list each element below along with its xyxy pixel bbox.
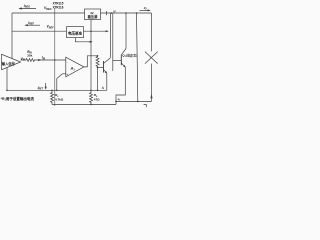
resistor R1b internal [90, 90, 93, 104]
wire Iret rail [7, 89, 107, 91]
wire noninverting input [62, 73, 65, 75]
svg-text:IIN: IIN [42, 56, 46, 61]
wire V+ vertical B [112, 13, 114, 71]
resistor R1a external [51, 90, 54, 104]
svg-text:IE: IE [102, 86, 105, 91]
node Io arrowhead [148, 9, 151, 11]
node junction plus input rail [56, 90, 58, 92]
transistor Tint base bar [103, 61, 105, 73]
node arrow Iin on wire [38, 59, 41, 61]
node Tint emitter arrowhead [105, 71, 108, 74]
node junction col91/vref [90, 30, 92, 32]
node junction col91/bent [90, 41, 92, 43]
wire Iret arrow down [45, 83, 47, 89]
node hook mark [144, 105, 147, 108]
wire Q1 collector up [125, 13, 127, 49]
node junction R1a top [51, 90, 53, 92]
box voltage reference 电压基准 [67, 27, 84, 38]
wire R2 bottom to rail [97, 67, 99, 90]
wire base Tint [98, 66, 104, 68]
chip boundary line [54, 8, 56, 106]
node V3 top [136, 12, 138, 14]
svg-text:+: + [66, 72, 68, 76]
svg-text:IREF: IREF [28, 21, 34, 26]
node arrowhead bent wire [90, 41, 93, 43]
node junction R2 top [97, 55, 99, 57]
box regulator 稳压源 [85, 9, 101, 20]
wire bottom step [115, 101, 117, 104]
wire col91 regulator down [90, 20, 92, 91]
svg-text:*R1用于设置输出电流: *R1用于设置输出电流 [1, 96, 35, 102]
node junction R2 rail [97, 90, 99, 92]
node junction R1b bottom [90, 104, 92, 106]
wire top rail V+ [12, 12, 152, 14]
node junction base [97, 67, 99, 69]
wire Q1 emitter down-left-down [116, 67, 125, 101]
svg-text:IREG: IREG [24, 4, 30, 9]
wire Io arrow [140, 9, 150, 11]
node junction input/boundary [54, 59, 56, 61]
wire Vref rail left [12, 30, 67, 32]
node loop current arrowhead up [150, 94, 152, 98]
svg-text:IO: IO [118, 97, 121, 102]
wire left vertical [11, 13, 13, 60]
transistor Q1 base bar [120, 55, 122, 65]
node junction collector rail [125, 12, 127, 14]
wire loop right top [151, 13, 153, 51]
wire Vref rail right with arrowhead [84, 30, 108, 32]
node junction V+ rail [111, 12, 113, 14]
wire bottom rail loop [116, 100, 152, 102]
amplifier input source triangle [2, 54, 21, 69]
wire V3 vertical [137, 13, 138, 101]
resistor R2 internal [96, 56, 99, 68]
svg-text:VIN: VIN [21, 57, 26, 62]
transistor Q1 collector [121, 49, 126, 55]
svg-text:4.7kΩ: 4.7kΩ [55, 98, 64, 102]
node junction emitter bottom [115, 101, 117, 103]
svg-text:稳压源: 稳压源 [88, 14, 99, 19]
wire noninverting down to Iret rail [56, 79, 58, 91]
node arrowhead vref [106, 30, 109, 32]
wire after RIN into chip [36, 59, 66, 61]
node V3 bottom [137, 101, 139, 103]
node Iret arrowhead [45, 87, 47, 90]
wire input gnd drop [6, 68, 8, 91]
op-amp A1 [66, 57, 84, 77]
wire tick on rail [106, 11, 108, 15]
transistor Q1 emitter [121, 63, 125, 67]
svg-text:Q1(见正文): Q1(见正文) [122, 53, 137, 59]
node junction col91 rail [90, 90, 92, 92]
node Iref arrowhead [24, 24, 27, 26]
svg-text:47Ω: 47Ω [94, 98, 100, 102]
svg-text:XTR116: XTR116 [53, 6, 64, 10]
svg-text:电压基准: 电压基准 [68, 30, 82, 35]
wire V+ vertical A [109, 13, 111, 58]
wire noninverting diagonal [57, 74, 63, 79]
svg-text:-: - [67, 60, 68, 64]
wire A1 output jog [84, 56, 98, 67]
node X crossing (supply) [145, 52, 158, 64]
wire Tint emitter down [106, 73, 108, 90]
transistor Tint emitter [104, 70, 107, 74]
svg-text:25k: 25k [27, 54, 32, 58]
svg-text:VREG: VREG [44, 6, 52, 11]
node corner dot [6, 90, 8, 92]
wire bottom rail chip [52, 103, 116, 105]
node Q1 emitter arrowhead [123, 65, 126, 68]
node X crossing 2 [145, 52, 158, 64]
wire Q1 base [113, 59, 122, 61]
svg-text:输入信号: 输入信号 [2, 61, 16, 66]
svg-text:IRET: IRET [38, 86, 44, 91]
wire Ireg arrow [20, 8, 37, 10]
wire bent from reference box [75, 38, 91, 42]
resistor RIN [21, 59, 36, 62]
svg-text:IO: IO [144, 6, 147, 11]
wire loop right bottom [151, 64, 153, 102]
svg-text:VREF: VREF [47, 25, 55, 30]
transistor Tint collector [104, 58, 111, 64]
node Ireg arrowhead [18, 7, 21, 9]
wire Iref arrow [26, 24, 41, 26]
